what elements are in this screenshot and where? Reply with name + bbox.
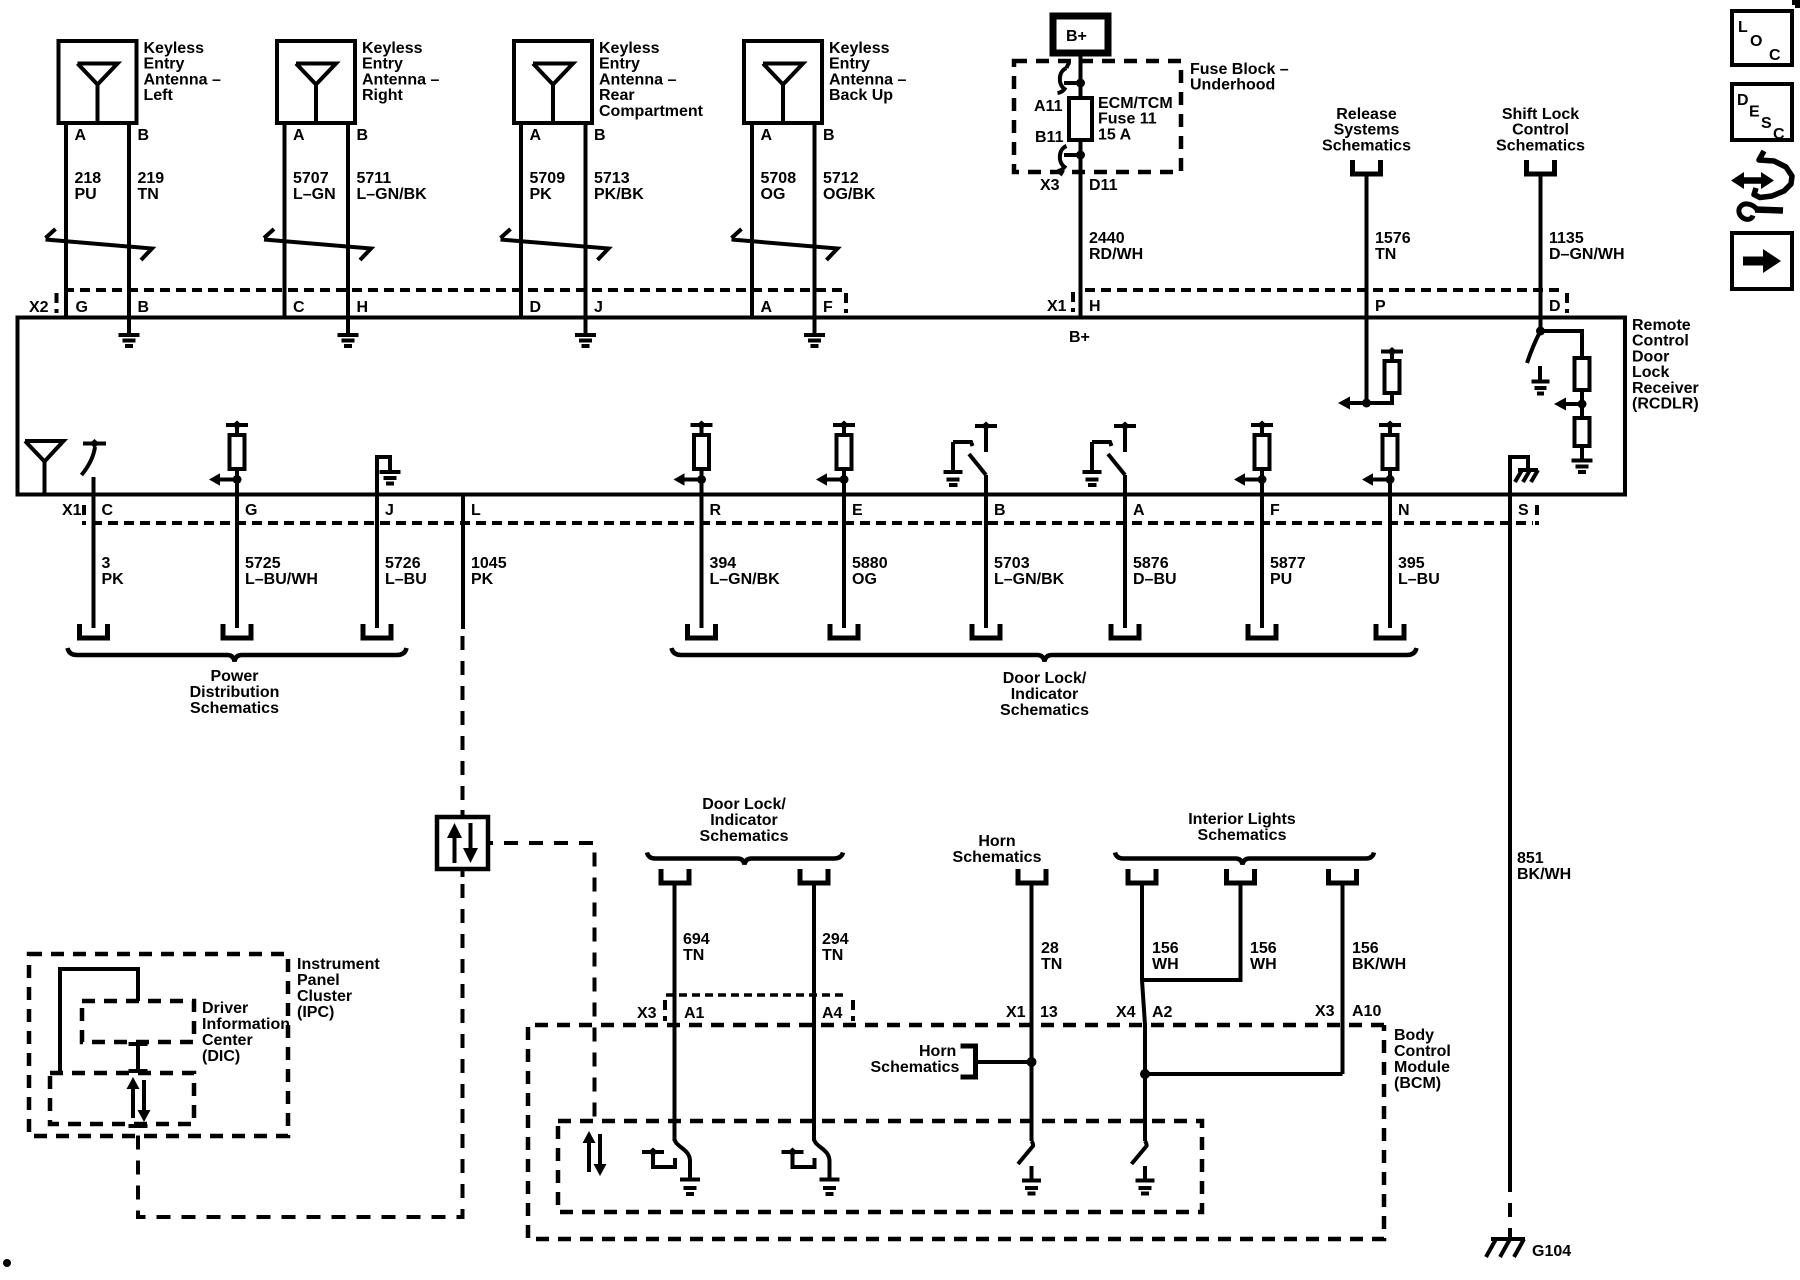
fuse ECM/TCM Fuse 11 15A: [1069, 98, 1092, 175]
ground G104: [1486, 1239, 1571, 1260]
wire below IPC node: [129, 1124, 148, 1128]
svg-text:Shift Lock: Shift Lock: [1502, 106, 1579, 123]
wire 5877 PU pin F: [1262, 495, 1306, 629]
svg-text:TN: TN: [1375, 246, 1396, 263]
icon next arrow: [1732, 233, 1792, 289]
svg-text:294: 294: [822, 931, 849, 948]
svg-text:J: J: [385, 502, 394, 519]
svg-text:TN: TN: [822, 947, 843, 964]
off-page connector wire 5877: [1248, 624, 1276, 638]
wire 5712 OG/BK pin B: [815, 123, 876, 318]
svg-text:J: J: [594, 299, 603, 316]
wire 5711 L-GN/BK pin B: [348, 123, 427, 318]
svg-text:A: A: [761, 299, 773, 316]
driver output pin E internal: [816, 421, 855, 495]
antenna trim arm pin C internal: [82, 439, 107, 495]
svg-text:TN: TN: [138, 186, 159, 203]
svg-text:X2: X2: [29, 299, 49, 316]
svg-text:Antenna –: Antenna –: [362, 71, 439, 88]
icon DESC: [1732, 84, 1792, 143]
svg-text:A: A: [530, 127, 542, 144]
svg-text:394: 394: [710, 555, 737, 572]
svg-text:(DIC): (DIC): [202, 1048, 240, 1065]
off-page connector wire 5725: [223, 624, 251, 638]
svg-text:Control: Control: [1632, 333, 1689, 350]
label release systems schematics: [1322, 106, 1411, 154]
wire 1576 TN: [1367, 174, 1411, 318]
keyless entry antenna back up U4: [744, 41, 822, 123]
switch to ground pin B internal: [944, 422, 998, 495]
wire 5726 L-BU pin J: [377, 495, 427, 629]
wire 5707 L-GN pin A: [285, 123, 336, 318]
connector X3 A1 A4 dashed: [637, 995, 853, 1022]
wire 5703 L-GN/BK pin B: [986, 495, 1065, 629]
svg-text:PK: PK: [471, 571, 494, 588]
svg-text:Schematics: Schematics: [190, 700, 279, 717]
svg-text:15 A: 15 A: [1098, 126, 1132, 143]
wire 395 L-BU pin N: [1390, 495, 1440, 629]
label horn schematics internal: [871, 1043, 960, 1076]
svg-text:Door: Door: [1632, 348, 1669, 365]
svg-text:B11: B11: [1035, 129, 1064, 146]
label remote control door lock receiver RCDLR: [1632, 317, 1699, 413]
svg-text:Schematics: Schematics: [1496, 137, 1585, 154]
svg-text:156: 156: [1352, 940, 1379, 957]
svg-text:OG/BK: OG/BK: [823, 186, 876, 203]
off-page connector release systems: [1353, 160, 1381, 174]
svg-text:Keyless: Keyless: [829, 40, 890, 57]
svg-text:H: H: [357, 299, 369, 316]
svg-text:Door Lock/: Door Lock/: [702, 796, 786, 813]
svg-text:Horn: Horn: [978, 833, 1015, 850]
label door lock indicator schematics lower: [700, 796, 789, 845]
svg-text:E: E: [1749, 104, 1760, 121]
svg-text:Door Lock/: Door Lock/: [1003, 670, 1087, 687]
label shift lock control schematics: [1496, 106, 1585, 154]
svg-text:A2: A2: [1152, 1004, 1173, 1021]
brace door lock indicator group: [672, 648, 1417, 662]
body control module BCM box: [528, 1025, 1384, 1239]
serial data wire to IPC: [138, 884, 463, 1217]
wire 156 BK/WH: [1343, 883, 1407, 1074]
off-page connector wire 5703: [972, 624, 1000, 638]
svg-text:Distribution: Distribution: [190, 684, 280, 701]
serial data in-line connector: [437, 810, 493, 877]
svg-text:Module: Module: [1394, 1059, 1450, 1076]
label interior lights schematics: [1188, 811, 1296, 844]
brace power distribution group: [68, 648, 407, 662]
svg-text:Instrument: Instrument: [297, 956, 380, 973]
stray mark bottom left: [3, 1259, 11, 1267]
svg-text:F: F: [1270, 502, 1280, 519]
power symbol B+: [1053, 16, 1108, 53]
svg-text:D: D: [1737, 92, 1749, 109]
resistor pin P internal: [1338, 318, 1403, 410]
svg-text:Entry: Entry: [362, 56, 403, 73]
svg-text:Remote: Remote: [1632, 317, 1691, 334]
svg-text:Keyless: Keyless: [362, 40, 423, 57]
svg-text:B: B: [138, 127, 150, 144]
wire 1045 PK pin L: [463, 495, 507, 801]
svg-text:X3: X3: [1315, 1003, 1335, 1020]
wire 156 WH second: [1142, 883, 1277, 980]
svg-text:Information: Information: [202, 1016, 290, 1033]
svg-text:H: H: [1089, 298, 1101, 315]
wire 2440 RD/WH: [1081, 175, 1144, 318]
svg-text:5708: 5708: [761, 170, 797, 187]
instrument panel cluster IPC box: [29, 954, 288, 1136]
label ECM/TCM Fuse 11 15 A: [1098, 95, 1173, 143]
svg-text:C: C: [1769, 47, 1781, 64]
svg-text:A11: A11: [1034, 98, 1063, 115]
svg-text:5876: 5876: [1133, 555, 1169, 572]
brace interior lights: [1115, 853, 1374, 865]
off-page connector wire 395: [1376, 624, 1404, 638]
wire 5708 OG pin A: [752, 123, 796, 318]
svg-text:Lock: Lock: [1632, 364, 1669, 381]
wire 5709 PK pin A: [521, 123, 565, 318]
svg-text:OG: OG: [852, 571, 877, 588]
svg-text:156: 156: [1250, 940, 1277, 957]
connector X1 bottom dashed line: [92, 521, 1533, 525]
svg-text:5713: 5713: [594, 170, 630, 187]
svg-text:3: 3: [102, 555, 111, 572]
svg-text:C: C: [293, 299, 305, 316]
svg-text:D–BU: D–BU: [1133, 571, 1177, 588]
serial data arrows IPC: [127, 1077, 151, 1122]
svg-text:(RCDLR): (RCDLR): [1632, 396, 1699, 413]
svg-text:Underhood: Underhood: [1190, 77, 1275, 94]
svg-text:Cluster: Cluster: [297, 988, 352, 1005]
label door lock indicator schematics main: [1000, 670, 1089, 719]
wire 5880 OG pin E: [844, 495, 888, 629]
svg-text:X1: X1: [62, 502, 82, 519]
svg-text:G104: G104: [1532, 1243, 1571, 1260]
svg-text:TN: TN: [683, 947, 704, 964]
svg-text:28: 28: [1041, 940, 1059, 957]
svg-text:B: B: [138, 299, 150, 316]
driver output pin N internal: [1362, 421, 1401, 495]
wire 5876 D-BU pin A: [1125, 495, 1177, 629]
svg-text:S: S: [1518, 502, 1529, 519]
off-page connector wire 694: [661, 869, 689, 883]
off-page connector shift lock: [1527, 160, 1555, 174]
svg-text:Left: Left: [144, 87, 174, 104]
wire 218 PU pin A: [66, 123, 101, 318]
wire A2 to A10 junction: [1140, 1069, 1343, 1141]
svg-text:A: A: [293, 127, 305, 144]
keyless entry antenna right U2: [277, 41, 355, 123]
svg-text:A4: A4: [822, 1005, 843, 1022]
svg-text:N: N: [1398, 502, 1410, 519]
svg-text:ECM/TCM: ECM/TCM: [1098, 95, 1173, 112]
svg-text:Receiver: Receiver: [1632, 380, 1699, 397]
svg-text:PK/BK: PK/BK: [594, 186, 644, 203]
label fuse block underhood: [1190, 61, 1289, 94]
svg-text:Entry: Entry: [599, 56, 640, 73]
svg-text:A1: A1: [684, 1005, 705, 1022]
wire 394 L-GN/BK pin R: [702, 495, 781, 629]
svg-text:X4: X4: [1116, 1004, 1136, 1021]
pin letters X1 bottom row: [102, 502, 1538, 525]
svg-text:Schematics: Schematics: [1000, 702, 1089, 719]
svg-text:5725: 5725: [245, 555, 281, 572]
svg-text:L–BU/WH: L–BU/WH: [245, 571, 318, 588]
svg-text:Keyless: Keyless: [599, 40, 660, 57]
svg-text:694: 694: [683, 931, 710, 948]
label keyless entry antenna right: [362, 40, 439, 104]
RCDLR module box: [18, 318, 1626, 495]
svg-text:L–BU: L–BU: [385, 571, 427, 588]
svg-text:L: L: [1738, 19, 1748, 36]
svg-text:BK/WH: BK/WH: [1352, 956, 1406, 973]
svg-text:B+: B+: [1069, 329, 1090, 346]
off-page connector wire 156 BK/WH: [1329, 869, 1357, 883]
svg-text:L–GN/BK: L–GN/BK: [710, 571, 781, 588]
svg-text:G: G: [76, 299, 88, 316]
svg-text:Body: Body: [1394, 1027, 1434, 1044]
off-page connector wire 294: [800, 869, 828, 883]
svg-text:PU: PU: [75, 186, 97, 203]
off-page connector wire 5876: [1111, 624, 1139, 638]
svg-text:PK: PK: [102, 571, 125, 588]
wire 5725 L-BU/WH pin G: [237, 495, 318, 629]
svg-text:TN: TN: [1041, 956, 1062, 973]
svg-text:156: 156: [1152, 940, 1179, 957]
svg-text:Schematics: Schematics: [1198, 827, 1287, 844]
svg-text:Schematics: Schematics: [1322, 137, 1411, 154]
antenna symbol internal: [25, 441, 64, 493]
svg-text:Entry: Entry: [829, 56, 870, 73]
brace door lock indicator lower: [647, 853, 843, 865]
fuse terminal hook A11: [1058, 63, 1070, 94]
wire 156 WH first: [1142, 883, 1179, 1074]
svg-text:L–BU: L–BU: [1398, 571, 1440, 588]
label instrument panel cluster: [297, 956, 380, 1021]
icon LOC: [1732, 11, 1792, 65]
keyless entry antenna rear compartment U3: [514, 41, 592, 123]
svg-text:Entry: Entry: [144, 56, 185, 73]
svg-text:5880: 5880: [852, 555, 888, 572]
wire 3 PK pin C: [94, 495, 125, 629]
icon pointer scribble: [1731, 151, 1792, 219]
connector X2 dashed line: [64, 288, 846, 292]
svg-text:Center: Center: [202, 1032, 253, 1049]
svg-text:Horn: Horn: [919, 1043, 956, 1060]
svg-text:R: R: [710, 502, 722, 519]
connector X4 A2 labels: [1116, 1004, 1173, 1021]
ground pin H antenna internal: [338, 320, 359, 347]
driver information center DIC box: [82, 1001, 194, 1042]
svg-text:WH: WH: [1152, 956, 1179, 973]
svg-text:C: C: [102, 502, 114, 519]
svg-text:E: E: [852, 502, 863, 519]
svg-text:Antenna –: Antenna –: [599, 71, 676, 88]
svg-text:Keyless: Keyless: [144, 40, 205, 57]
svg-text:Back Up: Back Up: [829, 87, 893, 104]
voltage divider pin D internal: [1541, 331, 1593, 472]
label keyless entry antenna rear compartment: [599, 40, 704, 120]
keyless entry antenna left U1: [59, 41, 137, 123]
wire IPC internal loop: [60, 969, 138, 1073]
svg-text:A: A: [1133, 502, 1145, 519]
ground pin J antenna internal: [575, 320, 596, 347]
svg-text:219: 219: [138, 170, 165, 187]
connector X1 top labels: [1047, 292, 1101, 315]
wire 28 TN: [1032, 883, 1063, 1141]
off-page connector wire 3: [80, 624, 108, 638]
svg-text:13: 13: [1040, 1004, 1058, 1021]
svg-text:Rear: Rear: [599, 87, 635, 104]
twisted pair marker antenna left: [46, 229, 153, 260]
svg-text:G: G: [245, 502, 257, 519]
svg-text:(BCM): (BCM): [1394, 1075, 1441, 1092]
svg-text:D–GN/WH: D–GN/WH: [1549, 246, 1625, 263]
svg-text:851: 851: [1517, 850, 1544, 867]
switch to ground pin A internal: [1083, 422, 1137, 495]
svg-text:Systems: Systems: [1334, 122, 1400, 139]
svg-text:Fuse 11: Fuse 11: [1098, 111, 1157, 128]
svg-text:F: F: [823, 299, 833, 316]
switch pin D internal: [1527, 318, 1550, 394]
svg-text:5726: 5726: [385, 555, 421, 572]
label keyless entry antenna back up: [829, 40, 906, 104]
label horn schematics top: [953, 833, 1042, 866]
svg-text:D: D: [1549, 298, 1561, 315]
label connector X1 bottom: [62, 502, 84, 525]
driver output pin G internal: [209, 421, 248, 495]
svg-text:PK: PK: [530, 186, 553, 203]
wire DIC to serial node: [129, 1042, 148, 1073]
svg-text:Right: Right: [362, 87, 404, 104]
svg-text:Schematics: Schematics: [953, 849, 1042, 866]
twisted pair marker antenna back up: [732, 229, 838, 260]
pin letters P D top: [1375, 298, 1561, 315]
pin letters X2 row: [76, 293, 847, 316]
svg-text:B: B: [994, 502, 1006, 519]
fuse terminal hook B11: [1058, 146, 1086, 175]
serial data wire to BCM: [504, 843, 595, 1126]
svg-text:B: B: [357, 127, 369, 144]
off-page connector wire 156 WH first: [1128, 869, 1156, 883]
serial data arrows BCM: [583, 1131, 607, 1176]
svg-text:Release: Release: [1336, 106, 1397, 123]
svg-text:Control: Control: [1512, 122, 1569, 139]
svg-text:Interior Lights: Interior Lights: [1188, 811, 1296, 828]
label driver information center: [202, 1000, 290, 1065]
svg-text:L: L: [471, 502, 481, 519]
connector X3 A10 labels: [1315, 1003, 1381, 1020]
twisted pair marker antenna right: [264, 229, 371, 260]
ground pin F antenna internal: [804, 320, 825, 347]
svg-text:5711: 5711: [357, 170, 392, 187]
fuse block underhood dashed box: [1014, 61, 1181, 172]
svg-text:Panel: Panel: [297, 972, 340, 989]
switch to ground A1 internal: [642, 1139, 700, 1194]
svg-text:Schematics: Schematics: [700, 828, 789, 845]
off-page connector wire 394: [688, 624, 716, 638]
svg-text:X1: X1: [1047, 298, 1067, 315]
BCM internal node box: [558, 1121, 1202, 1212]
driver output pin R internal: [674, 421, 713, 495]
svg-text:PU: PU: [1270, 571, 1292, 588]
wire 5713 PK/BK pin B: [586, 123, 645, 318]
svg-text:P: P: [1375, 298, 1386, 315]
svg-text:WH: WH: [1250, 956, 1277, 973]
svg-text:5707: 5707: [293, 170, 329, 187]
svg-text:RD/WH: RD/WH: [1089, 246, 1143, 263]
label keyless entry antenna left: [144, 40, 221, 104]
svg-text:395: 395: [1398, 555, 1425, 572]
svg-text:5877: 5877: [1270, 555, 1306, 572]
svg-text:Indicator: Indicator: [1011, 686, 1079, 703]
svg-text:Indicator: Indicator: [710, 812, 778, 829]
svg-text:X1: X1: [1006, 1004, 1026, 1021]
svg-text:B: B: [594, 127, 606, 144]
svg-text:S: S: [1761, 115, 1772, 132]
label body control module BCM: [1394, 1027, 1451, 1092]
wire 851 BK/WH pin S: [1510, 495, 1571, 1238]
svg-text:L–GN/BK: L–GN/BK: [994, 571, 1065, 588]
svg-text:5703: 5703: [994, 555, 1030, 572]
label B11: [1035, 129, 1064, 146]
label connector X2: [29, 293, 57, 316]
connector X3 D11 labels: [1040, 177, 1118, 194]
svg-text:A: A: [761, 127, 773, 144]
svg-text:D: D: [530, 299, 542, 316]
svg-text:C: C: [1773, 126, 1785, 143]
svg-text:O: O: [1750, 33, 1762, 50]
svg-text:2440: 2440: [1089, 230, 1125, 247]
wire 694 TN: [675, 883, 710, 1141]
ground pin B internal: [119, 320, 140, 347]
connector X1 top dashed line: [1085, 290, 1567, 313]
svg-text:Fuse Block –: Fuse Block –: [1190, 61, 1289, 78]
svg-text:X3: X3: [1040, 177, 1060, 194]
label power distribution schematics: [190, 668, 280, 717]
switch to ground pin 13 internal: [1018, 1141, 1041, 1194]
svg-text:5709: 5709: [530, 170, 566, 187]
IPC serial data node box: [50, 1073, 194, 1124]
svg-text:A10: A10: [1352, 1003, 1381, 1020]
svg-text:(IPC): (IPC): [297, 1004, 334, 1021]
label A11: [1034, 98, 1063, 115]
svg-text:A: A: [75, 127, 87, 144]
svg-text:L–GN/BK: L–GN/BK: [357, 186, 428, 203]
svg-text:Driver: Driver: [202, 1000, 248, 1017]
svg-text:Control: Control: [1394, 1043, 1451, 1060]
svg-text:218: 218: [75, 170, 102, 187]
wire 294 TN: [814, 883, 849, 1141]
connector X1 13 labels: [1006, 1004, 1058, 1021]
off-page connector wire 156 WH second: [1227, 869, 1255, 883]
svg-text:BK/WH: BK/WH: [1517, 866, 1571, 883]
page corner mark: [1792, 0, 1800, 8]
svg-text:Power: Power: [210, 668, 258, 685]
wire 219 TN pin B: [129, 123, 164, 318]
svg-text:B+: B+: [1066, 28, 1087, 45]
svg-text:OG: OG: [761, 186, 786, 203]
node B+ internal: [1069, 329, 1090, 346]
ground hook pin J internal: [377, 457, 401, 495]
svg-text:B: B: [823, 127, 835, 144]
svg-text:Antenna –: Antenna –: [144, 71, 221, 88]
svg-text:Schematics: Schematics: [871, 1059, 960, 1076]
twisted pair marker antenna rear: [501, 229, 609, 260]
off-page connector wire 5726: [363, 624, 391, 638]
svg-text:1045: 1045: [471, 555, 507, 572]
svg-text:5712: 5712: [823, 170, 859, 187]
